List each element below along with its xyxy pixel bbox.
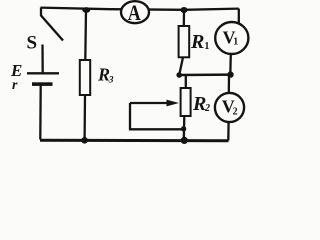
svg-text:R: R bbox=[190, 31, 204, 53]
svg-text:S: S bbox=[27, 32, 38, 53]
svg-text:1: 1 bbox=[233, 37, 238, 48]
svg-text:2: 2 bbox=[233, 106, 238, 117]
svg-text:r: r bbox=[12, 78, 18, 93]
svg-text:3: 3 bbox=[108, 75, 114, 85]
svg-text:1: 1 bbox=[204, 41, 209, 52]
svg-text:A: A bbox=[128, 1, 141, 25]
svg-text:2: 2 bbox=[204, 103, 210, 114]
